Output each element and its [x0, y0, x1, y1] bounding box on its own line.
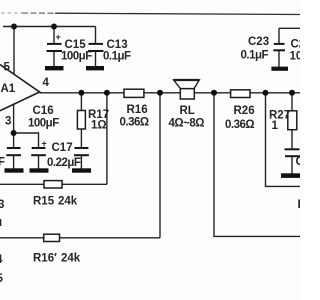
- svg-text:R15: R15: [33, 196, 55, 208]
- resistor R16: [124, 89, 144, 97]
- capacitor C27 plates: [285, 149, 301, 156]
- resistor R17: [77, 111, 85, 130]
- node zobel left: [78, 90, 84, 96]
- node C15 rail: [51, 24, 57, 30]
- svg-text:5: 5: [0, 273, 4, 285]
- svg-text:C23: C23: [248, 36, 269, 48]
- svg-text:4: 4: [43, 77, 50, 89]
- svg-text:C: C: [296, 156, 301, 168]
- wire speaker right vertical: [214, 93, 300, 237]
- wire R27 to C27: [291, 130, 293, 149]
- svg-text:1Ω: 1Ω: [91, 120, 107, 132]
- wire C23 ground stem: [278, 50, 280, 67]
- node zobel right: [289, 90, 295, 96]
- svg-text:0.36Ω: 0.36Ω: [120, 117, 149, 129]
- capacitor C23 plates: [273, 44, 285, 50]
- resistor R27: [288, 111, 297, 130]
- wire R16p row: [0, 237, 160, 239]
- label cut tick: [0, 219, 2, 226]
- wire V+ rail left: [3, 26, 96, 28]
- wire C27 ground stem: [291, 156, 293, 173]
- speaker RL: [180, 89, 194, 99]
- svg-text:A1: A1: [1, 83, 16, 95]
- wire pin3 vertical: [13, 104, 15, 148]
- svg-text:0.22μF: 0.22μF: [47, 157, 81, 169]
- resistor R26: [231, 90, 250, 98]
- wire C23 branch: [279, 28, 300, 44]
- capacitor C16 plates: [31, 148, 46, 155]
- svg-text:3: 3: [5, 116, 11, 128]
- wire feedback right vertical: [266, 93, 301, 187]
- svg-text:R26: R26: [234, 105, 255, 117]
- svg-text:24k: 24k: [58, 196, 78, 208]
- svg-text:100μF: 100μF: [28, 118, 59, 130]
- resistor R16p: [44, 234, 60, 241]
- svg-text:24k: 24k: [61, 253, 81, 265]
- svg-text:4: 4: [0, 254, 3, 266]
- svg-text:RL: RL: [180, 105, 195, 117]
- node pin3: [11, 130, 17, 136]
- svg-text:5: 5: [4, 62, 11, 74]
- wire C15 stem: [53, 27, 55, 44]
- ground C15: [45, 66, 64, 70]
- ground C27: [281, 173, 300, 178]
- wire R27 zobel: [291, 93, 293, 111]
- resistor R15: [44, 181, 62, 188]
- ground C13: [86, 66, 104, 70]
- wire C17 ground stem: [80, 155, 82, 168]
- node speaker left: [157, 90, 163, 96]
- node speaker right: [211, 90, 217, 96]
- svg-text:0.36Ω: 0.36Ω: [225, 119, 254, 131]
- svg-text:C13: C13: [107, 39, 128, 51]
- wire C14 ground stem: [13, 155, 15, 168]
- wire C13 ground stem: [95, 51, 97, 66]
- svg-text:C17: C17: [52, 142, 73, 154]
- capacitor C14 plates: [6, 148, 21, 155]
- wire feedback left vertical: [106, 93, 108, 185]
- wire R15 row: [0, 183, 107, 185]
- wire R17 to C17: [80, 129, 82, 148]
- svg-text:C2: C2: [291, 39, 301, 51]
- node feedback right: [263, 90, 269, 96]
- ground C16: [30, 168, 49, 172]
- svg-text:R16: R16: [127, 104, 148, 116]
- wire speaker left vertical: [159, 93, 161, 238]
- svg-text:C16: C16: [33, 105, 54, 117]
- svg-text:+: +: [42, 139, 47, 149]
- svg-text:100μF: 100μF: [61, 51, 92, 63]
- wire C15 ground stem: [53, 51, 55, 66]
- svg-text:1: 1: [272, 120, 279, 132]
- ground C17: [72, 168, 91, 172]
- svg-text:0.1μF: 0.1μF: [103, 51, 131, 63]
- wire C13 drop: [95, 27, 97, 44]
- wire C16 ground stem: [38, 155, 40, 168]
- svg-text:F: F: [0, 157, 5, 169]
- node pin5 rail: [11, 24, 17, 30]
- dash-dot top border: [1, 12, 22, 14]
- capacitor C15 plates: [47, 44, 63, 51]
- ground C23: [271, 67, 288, 71]
- svg-text:3: 3: [0, 199, 4, 211]
- svg-text:+: +: [56, 32, 61, 42]
- capacitor C17 plates: [74, 148, 89, 155]
- svg-text:100: 100: [290, 51, 301, 63]
- ground C14: [5, 168, 24, 172]
- op-amp A1: [0, 65, 40, 111]
- svg-text:C15: C15: [65, 39, 87, 51]
- wire pin3 node to C16: [14, 133, 39, 148]
- wire pin5 vertical: [13, 27, 15, 75]
- svg-text:R: R: [298, 199, 301, 211]
- wire zobel left: [80, 93, 82, 111]
- svg-text:0.1μF: 0.1μF: [241, 50, 269, 62]
- wire output main: [40, 92, 300, 94]
- node feedback left: [104, 90, 110, 96]
- capacitor C13 plates: [88, 44, 104, 51]
- svg-text:4Ω~8Ω: 4Ω~8Ω: [169, 118, 205, 130]
- svg-text:R16′: R16′: [33, 253, 57, 265]
